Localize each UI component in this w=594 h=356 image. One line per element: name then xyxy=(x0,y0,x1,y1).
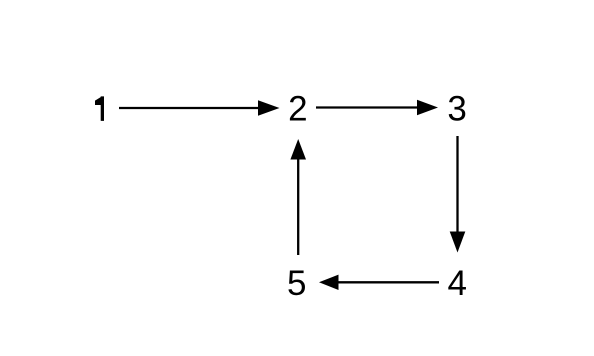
svg-text:5: 5 xyxy=(287,264,306,303)
svg-text:4: 4 xyxy=(448,264,467,303)
svg-text:3: 3 xyxy=(447,90,466,129)
svg-text:2: 2 xyxy=(288,90,307,129)
